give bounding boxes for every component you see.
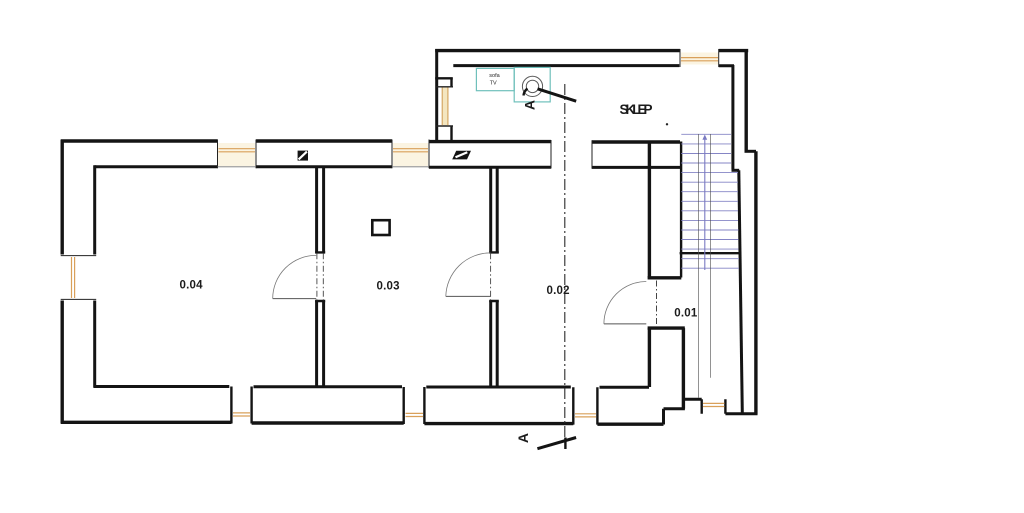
dot in sklep xyxy=(666,123,668,125)
svg-text:A: A xyxy=(515,433,531,443)
right wall outer lower xyxy=(754,151,757,414)
door D3 leaf xyxy=(604,323,646,325)
partition wall 0.04/0.03 xyxy=(317,167,324,387)
window B1 orange panes xyxy=(233,413,250,416)
door D1 arc xyxy=(273,255,317,298)
wall main top inner xyxy=(95,165,681,169)
wall 0.02/0.01 xyxy=(648,142,651,278)
furniture washing machine xyxy=(514,67,550,102)
wall main top outer xyxy=(61,141,680,142)
window fill X2 top wall room 0.03 xyxy=(393,143,428,166)
window B2 jambs xyxy=(404,387,425,424)
svg-text:0.01: 0.01 xyxy=(674,308,698,320)
staircase walking arrow xyxy=(702,135,707,140)
partition wall 0.03/0.02 xyxy=(491,167,498,387)
staircase top edge xyxy=(681,133,731,135)
right wall inner step xyxy=(732,169,740,172)
window X2 jambs xyxy=(392,140,429,169)
sklep door orange edges xyxy=(442,88,448,126)
window B3 orange panes xyxy=(575,414,596,417)
sklep left wall outer xyxy=(435,49,438,142)
wall chunk below door D3 xyxy=(649,328,683,409)
window L1 caps xyxy=(61,256,96,300)
section line A-A xyxy=(564,84,566,438)
door D2 leaf 0.03 xyxy=(446,295,491,297)
svg-text:0.02: 0.02 xyxy=(547,285,570,297)
svg-text:0.03: 0.03 xyxy=(377,281,400,293)
partition 0.04/0.03 end caps xyxy=(315,252,325,301)
window B1 jambs xyxy=(231,387,251,424)
staircase walking line xyxy=(704,137,706,270)
window B2 orange panes xyxy=(406,413,424,416)
sklep window X3 jambs xyxy=(680,49,719,67)
door D3 top stub xyxy=(648,276,682,279)
staircase treads xyxy=(681,144,739,268)
window L1 orange panes xyxy=(72,257,75,298)
staircase over-line xyxy=(680,252,742,254)
svg-text:SKLEP: SKLEP xyxy=(620,102,653,117)
door D3 arc xyxy=(604,282,646,324)
extension inner bottom wall xyxy=(682,398,702,401)
door D3 bottom stub xyxy=(648,326,685,329)
sklep left wall step xyxy=(435,77,453,79)
sklep left wall inner xyxy=(450,78,452,141)
sklep right wall outer xyxy=(745,49,748,150)
window X1 inner thin line xyxy=(218,166,257,168)
svg-text:sofa: sofa xyxy=(489,73,500,79)
wall bottom inner xyxy=(94,385,650,389)
partition 0.03/0.02 end caps xyxy=(489,252,499,301)
door D2 arc xyxy=(446,253,491,297)
window B3 jambs xyxy=(573,387,597,424)
window fill X3 sklep top wall xyxy=(681,53,718,65)
door D1 leaf 0.04 xyxy=(273,298,317,300)
furniture sofa TV xyxy=(476,68,514,90)
sklep right wall step out xyxy=(745,150,757,153)
door D1 dashed opening xyxy=(317,253,323,300)
chimney C1 xyxy=(298,151,308,161)
door D2 dashed opening xyxy=(490,253,492,300)
wall left inner xyxy=(93,165,96,387)
sklep top wall outer xyxy=(435,49,748,52)
bottom step near extension xyxy=(664,409,685,425)
passage end caps top wall xyxy=(551,140,592,169)
extension outer bottom wall xyxy=(725,412,757,415)
section mark A top xyxy=(522,89,577,110)
stair dim extension lines xyxy=(698,134,710,398)
window X2 orange panes xyxy=(393,149,428,152)
right wall inner lower xyxy=(739,170,743,412)
svg-text:0.04: 0.04 xyxy=(180,280,204,292)
window X3 orange panes xyxy=(681,58,718,61)
staircase left wall xyxy=(680,142,682,278)
wall bottom outer xyxy=(61,422,664,424)
door fill sklep left wall xyxy=(442,88,449,126)
window X2 inner thin line xyxy=(392,166,429,168)
wall left outer xyxy=(61,140,64,424)
extension window orange panes xyxy=(703,403,724,406)
window X1 orange panes xyxy=(219,149,256,152)
chimney C2 xyxy=(452,151,471,160)
svg-text:TV: TV xyxy=(490,81,497,87)
svg-text:A: A xyxy=(522,100,538,110)
sklep door caps xyxy=(436,87,453,126)
pillar room 0.03 xyxy=(372,220,389,235)
door D3 dashed opening xyxy=(656,281,658,327)
extension window jambs xyxy=(702,399,726,414)
section mark A bottom xyxy=(515,433,576,449)
window fill X1 top wall room 0.04 xyxy=(218,143,255,166)
window X1 jambs xyxy=(218,140,257,169)
sklep top wall inner xyxy=(453,64,734,67)
sklep right wall inner xyxy=(731,65,734,169)
